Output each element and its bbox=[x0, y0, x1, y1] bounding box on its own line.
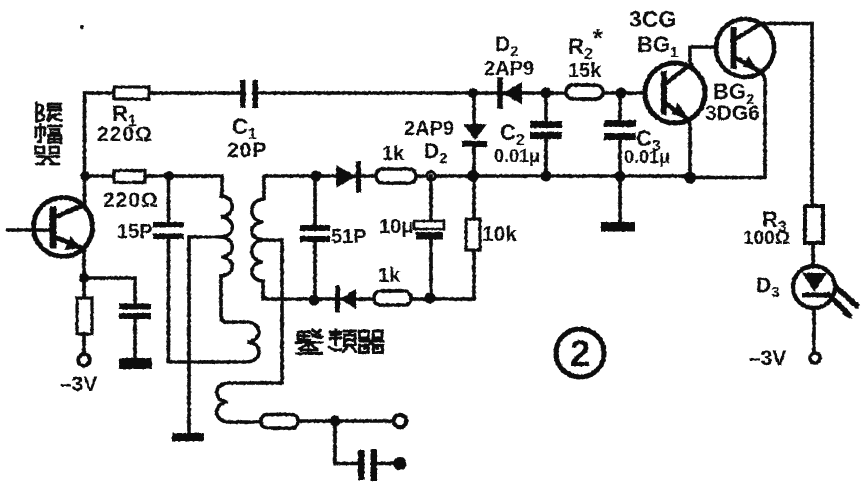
value label 1k upper bbox=[382, 143, 405, 165]
diode D lower detector bbox=[338, 288, 357, 310]
svg-text:0.01μ: 0.01μ bbox=[624, 147, 670, 167]
value label C1 bbox=[227, 114, 267, 162]
resistor 1k lower bbox=[374, 291, 411, 305]
svg-text:3CG: 3CG bbox=[629, 6, 676, 32]
node lower rail 51P junction bbox=[309, 295, 320, 306]
diode D2 vertical 2AP9 bbox=[462, 93, 487, 176]
label -3V right bbox=[749, 347, 786, 370]
wire bottom output bbox=[298, 419, 394, 423]
node BG1 emitter junction bbox=[684, 172, 696, 184]
value label 1k lower bbox=[378, 265, 401, 287]
value label 15P bbox=[117, 221, 153, 243]
svg-text:3DG6: 3DG6 bbox=[705, 102, 760, 125]
svg-text:100Ω: 100Ω bbox=[743, 228, 790, 249]
svg-text:1k: 1k bbox=[378, 265, 401, 287]
value label R1 bbox=[97, 101, 153, 146]
label -3V left bbox=[60, 373, 97, 396]
ground transformer tap bbox=[172, 433, 204, 442]
capacitor 10u electrolytic bbox=[414, 176, 444, 298]
diode D2 horizontal 2AP9 bbox=[500, 80, 522, 106]
resistor 10k vertical bbox=[466, 176, 480, 299]
wire coil A centre tap bbox=[189, 237, 221, 433]
transformer secondary coil B bbox=[252, 176, 268, 299]
wire R3 to LED bbox=[811, 243, 815, 267]
svg-text:15P: 15P bbox=[117, 221, 153, 243]
svg-text:220Ω: 220Ω bbox=[97, 123, 153, 146]
transistor Q1 limiter bbox=[8, 198, 93, 279]
value label C2 bbox=[494, 120, 540, 166]
terminal output solid dot bbox=[394, 457, 407, 470]
node junction at 546,93 bbox=[541, 88, 552, 99]
node below limiter emitter bbox=[79, 273, 89, 283]
svg-text:1k: 1k bbox=[382, 143, 405, 165]
svg-text:2AP9: 2AP9 bbox=[404, 118, 454, 140]
value label D2 2AP9 top bbox=[484, 33, 534, 80]
diode D1 upper detector bbox=[336, 164, 359, 190]
value label 220ohm second bbox=[103, 189, 159, 212]
resistor R2 15k bbox=[566, 85, 603, 99]
value label 51P bbox=[331, 226, 367, 248]
wire top rail bbox=[85, 91, 645, 95]
capacitor 51P bbox=[300, 176, 330, 300]
svg-text:2: 2 bbox=[570, 333, 591, 374]
node junction at 473,176 bbox=[467, 170, 479, 182]
figure number circled 2 bbox=[556, 329, 604, 377]
value label R2 15k bbox=[568, 23, 604, 82]
value label 10k bbox=[482, 223, 517, 246]
value label C3 bbox=[624, 126, 670, 167]
wire second rail left segment bbox=[85, 174, 222, 178]
capacitor C2 bbox=[530, 93, 562, 176]
transformer primary coil A bbox=[221, 176, 247, 322]
svg-text:0.01μ: 0.01μ bbox=[494, 146, 540, 166]
value label BG2 3DG6 bbox=[705, 79, 760, 125]
node detector input junction bbox=[311, 171, 322, 182]
resistor emitter bias (vertical, unlabeled) bbox=[77, 278, 92, 354]
wire left vertical from top rail to limiter collector bbox=[83, 93, 87, 206]
svg-text:20P: 20P bbox=[227, 139, 267, 162]
ground left bbox=[119, 358, 152, 369]
resistor 220ohm (second) bbox=[114, 171, 145, 183]
wire coil B tap to link line bbox=[263, 240, 282, 383]
ground centre below C3 bbox=[601, 176, 635, 232]
resistor R1 bbox=[114, 87, 149, 99]
wire second rail right segment bbox=[264, 174, 690, 178]
diode D3 LED bbox=[793, 266, 859, 319]
wire right vertical supply bbox=[810, 24, 814, 207]
node top-left corner dot artifact bbox=[80, 25, 84, 29]
resistor R3 bbox=[805, 206, 823, 243]
transistor BG2 bbox=[716, 19, 812, 177]
wire lower detector rail bbox=[263, 297, 474, 301]
value label 10u bbox=[379, 216, 413, 238]
node bottom output junction bbox=[330, 416, 341, 427]
figure number 2 text bbox=[570, 333, 591, 374]
value label 2AP9 D2 mid bbox=[404, 118, 454, 167]
node junction at 85,176 bbox=[80, 171, 90, 181]
wire emitter to bypass cap bbox=[84, 278, 135, 304]
node C3 lower junction bbox=[615, 171, 626, 182]
resistor 1k upper bbox=[376, 169, 416, 183]
label limiter Chinese 限幅器 bbox=[36, 103, 62, 164]
transistor BG1 bbox=[645, 47, 717, 178]
capacitor output coupling bbox=[358, 449, 395, 481]
svg-text:2AP9: 2AP9 bbox=[484, 58, 534, 80]
capacitor C3 bbox=[604, 93, 636, 176]
capacitor C1 bbox=[240, 80, 258, 108]
terminal -3V right bbox=[810, 353, 820, 363]
value label R3 100ohm bbox=[743, 207, 790, 249]
value label 3CG BG1 bbox=[629, 6, 678, 61]
coil C tertiary winding bbox=[168, 322, 259, 362]
node junction D2 top rail bbox=[468, 88, 478, 98]
label detector Chinese 鉴频器 bbox=[297, 330, 384, 354]
node junction at 169,176 bbox=[164, 171, 174, 181]
svg-text:10μ: 10μ bbox=[379, 216, 413, 238]
capacitor 15P bbox=[153, 176, 184, 362]
wire output cap branch bbox=[335, 421, 358, 464]
capacitor emitter bypass (unlabeled) bbox=[119, 304, 151, 359]
wire second rail far right to BG2 emitter bbox=[690, 176, 765, 180]
node C2 lower junction bbox=[541, 171, 552, 182]
svg-text:–3V: –3V bbox=[749, 347, 786, 370]
svg-text:–3V: –3V bbox=[60, 373, 97, 396]
value label D3 bbox=[756, 274, 780, 301]
wire LED to terminal bbox=[812, 308, 816, 353]
node lower rail 10u junction bbox=[425, 293, 436, 304]
svg-text:10k: 10k bbox=[482, 223, 517, 246]
terminal small circle node AF out bbox=[427, 172, 435, 180]
terminal -3V left bbox=[78, 354, 90, 366]
svg-text:220Ω: 220Ω bbox=[103, 189, 159, 212]
node junction at 621,93 bbox=[616, 88, 627, 99]
resistor output (bottom, unlabeled) bbox=[261, 415, 298, 429]
svg-text:51P: 51P bbox=[331, 226, 367, 248]
coil D link winding bbox=[217, 383, 282, 422]
svg-text:15k: 15k bbox=[568, 60, 602, 82]
terminal output open circle bbox=[394, 415, 406, 427]
